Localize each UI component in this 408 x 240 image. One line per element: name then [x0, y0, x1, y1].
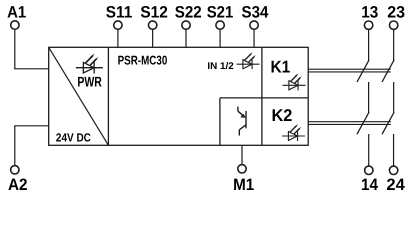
- terminal S22: [182, 21, 190, 29]
- contact K2 blade 23-24: [382, 112, 394, 134]
- svg-text:S22: S22: [175, 3, 202, 21]
- terminal S34: [250, 21, 258, 29]
- svg-text:K2: K2: [272, 106, 293, 125]
- svg-text:23: 23: [387, 3, 405, 21]
- terminal S11: [114, 21, 122, 29]
- wire S34: [253, 30, 255, 48]
- opto box left edge: [219, 98, 221, 145]
- wire A2 vertical: [14, 126, 16, 165]
- terminal 14: [365, 166, 373, 174]
- LED K2: [282, 124, 305, 141]
- power supply diagonal: [49, 47, 109, 145]
- divider power section: [107, 47, 109, 145]
- contact K1 blade 13-14: [357, 60, 369, 82]
- main box: [49, 47, 309, 145]
- svg-text:K1: K1: [271, 58, 291, 77]
- svg-text:13: 13: [361, 3, 378, 21]
- svg-text:24V DC: 24V DC: [56, 131, 91, 145]
- terminal 23: [389, 21, 397, 29]
- svg-text:S21: S21: [207, 3, 234, 21]
- linkage K2 double line: [308, 122, 391, 125]
- wire 23 down: [393, 30, 395, 60]
- terminal 24: [389, 166, 397, 174]
- contact K1 blade 23-24: [382, 60, 394, 82]
- svg-text:PWR: PWR: [77, 74, 102, 90]
- svg-text:14: 14: [361, 176, 379, 194]
- wire 13-14 middle: [368, 82, 370, 112]
- svg-text:M1: M1: [233, 176, 254, 194]
- divider K1/K2 horizontal: [220, 97, 308, 99]
- svg-text:A2: A2: [8, 176, 28, 194]
- LED K1: [283, 73, 306, 90]
- svg-text:S34: S34: [242, 3, 270, 21]
- wire S22: [185, 30, 187, 48]
- svg-text:S12: S12: [140, 3, 168, 21]
- wire S11: [117, 30, 119, 48]
- terminal S21: [216, 21, 224, 29]
- svg-text:S11: S11: [106, 3, 133, 21]
- svg-text:PSR-MC30: PSR-MC30: [118, 54, 168, 68]
- svg-text:A1: A1: [7, 3, 26, 21]
- terminal M1: [238, 165, 246, 173]
- LED PWR: [76, 53, 103, 73]
- LED input: [237, 52, 260, 69]
- contact K2 blade 13-14: [357, 112, 369, 134]
- svg-text:IN 1/2: IN 1/2: [207, 61, 233, 72]
- wire 24 up: [393, 134, 395, 166]
- wire A1 vertical: [14, 30, 16, 69]
- wire S12: [152, 30, 154, 48]
- terminal 13: [364, 21, 372, 29]
- wire S21: [219, 30, 221, 48]
- svg-text:24: 24: [386, 176, 405, 194]
- wire 14 up: [368, 134, 370, 166]
- divider K section: [261, 47, 263, 145]
- terminal A1: [11, 21, 19, 29]
- wire M1: [241, 145, 243, 164]
- terminal A2: [11, 166, 19, 174]
- wire 13 down: [368, 30, 370, 60]
- linkage K1 double line: [308, 69, 391, 72]
- optocoupler U1: [238, 107, 246, 136]
- terminal S12: [148, 21, 156, 29]
- wire 23-24 middle: [393, 82, 395, 112]
- wire A1 horizontal: [14, 68, 49, 70]
- wire A2 horizontal: [14, 125, 49, 127]
